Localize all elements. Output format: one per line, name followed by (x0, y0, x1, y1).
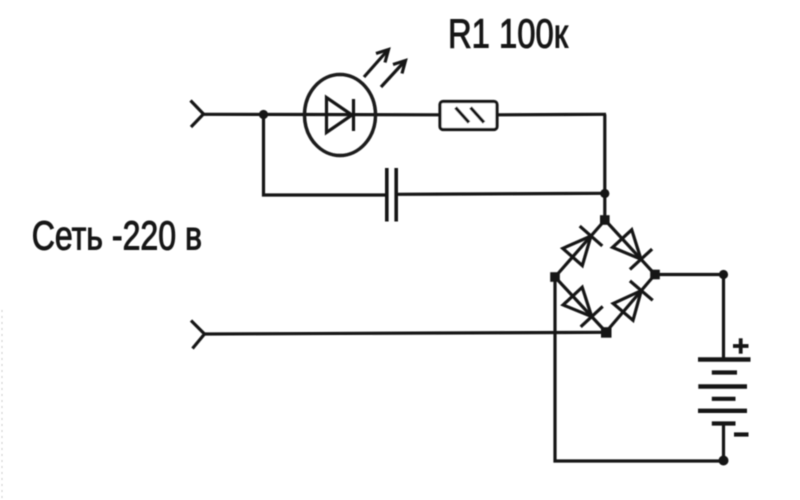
svg-text:R1 100к: R1 100к (448, 11, 569, 56)
svg-text:Сеть -220 в: Сеть -220 в (32, 213, 202, 258)
